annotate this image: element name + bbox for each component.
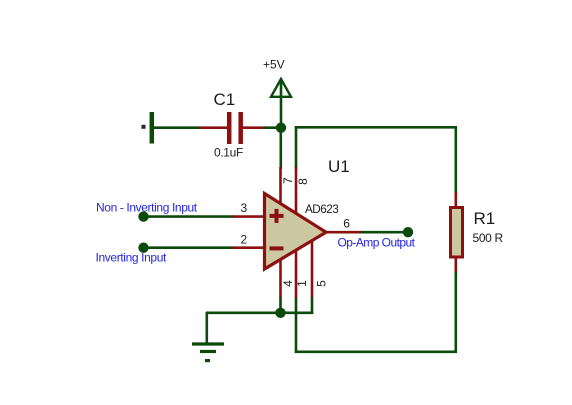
wire: R1 top red stub: [454, 192, 457, 209]
wire: C1 right pin stub (red): [242, 126, 266, 129]
svg-text:500 R: 500 R: [473, 231, 504, 245]
svg-text:AD623: AD623: [305, 203, 338, 216]
label 500 R: [473, 231, 504, 245]
svg-text:C1: C1: [214, 90, 236, 109]
wire: drop to ground symbol: [206, 312, 209, 344]
wire: pin1 red stub: [295, 247, 298, 298]
terminal: non-inverting input: [138, 211, 148, 221]
svg-text:3: 3: [241, 201, 248, 215]
pin number 6: [343, 216, 350, 230]
svg-text:0.1uF: 0.1uF: [214, 146, 243, 160]
op-amp plus mark: [270, 209, 284, 223]
pin number 4 (rotated): [281, 280, 295, 287]
label R1: [474, 209, 496, 228]
pin number 2: [241, 232, 248, 246]
ground: [192, 344, 224, 362]
pin number 7 (rotated): [281, 177, 295, 184]
resistor R1 body: [451, 208, 463, 258]
wire: pin8 green segment: [295, 127, 298, 170]
label 0.1uF: [214, 146, 243, 160]
wire: C1 left pin stub (red): [200, 126, 228, 129]
wire: pin2 red stub: [233, 246, 267, 249]
svg-text:+5V: +5V: [263, 58, 285, 72]
wire: top feedback rail: [295, 126, 457, 129]
pin number 5 (rotated): [315, 280, 329, 287]
op-amp U1 body: [265, 194, 327, 270]
wire: pin1 green segment: [295, 297, 298, 353]
wire: pin4 green segment: [279, 297, 282, 313]
wire: R1 bottom green lead: [454, 272, 457, 353]
svg-text:7: 7: [281, 177, 295, 184]
terminal: C1 left connector: [142, 112, 152, 144]
wire: pin7 green segment: [279, 128, 282, 169]
svg-text:2: 2: [241, 232, 248, 246]
pin number 3: [241, 201, 248, 215]
wire: pin3 green lead: [144, 215, 235, 218]
net label Non - Inverting Input: [96, 200, 198, 214]
wire: pin7 red stub: [279, 167, 282, 206]
label AD623: [305, 203, 338, 216]
svg-text:4: 4: [281, 280, 295, 287]
svg-text:5: 5: [315, 280, 329, 287]
svg-text:1: 1: [295, 280, 309, 287]
wire: R1 top green lead: [454, 127, 457, 194]
svg-text:Inverting Input: Inverting Input: [96, 251, 168, 265]
wire: R1 bottom red stub: [454, 256, 457, 274]
net label Inverting Input: [96, 251, 168, 265]
svg-text:6: 6: [343, 216, 350, 230]
wire: pin3 red stub: [233, 215, 267, 218]
power +5V symbol: [271, 79, 291, 128]
wire: pin5 red stub: [311, 237, 314, 298]
wire: C1 left lead (green): [154, 126, 201, 129]
net label Op-Amp Output: [338, 236, 416, 250]
svg-text:Non - Inverting Input: Non - Inverting Input: [96, 200, 198, 214]
wire: output green lead: [361, 231, 408, 234]
svg-text:R1: R1: [474, 209, 496, 228]
svg-text:Op-Amp Output: Op-Amp Output: [338, 236, 416, 250]
wire: pin4 red stub: [279, 257, 282, 298]
label U1: [328, 157, 350, 176]
wire: ground rail: [206, 311, 313, 314]
capacitor C1: [229, 112, 241, 144]
terminal: op-amp output: [403, 227, 413, 237]
op-amp minus mark: [270, 246, 284, 250]
pin number 1 (rotated): [295, 280, 309, 287]
node: ground junction: [275, 308, 285, 318]
pin number 8 (rotated): [296, 178, 310, 185]
wire: pin2 green lead: [144, 246, 235, 249]
wire: C1 right lead to +5V node (green): [264, 126, 282, 129]
terminal: inverting input: [138, 243, 148, 253]
svg-text:8: 8: [296, 178, 310, 185]
wire: pin5 green segment: [311, 297, 314, 314]
label C1: [214, 90, 236, 109]
wire: pin6 red stub: [326, 231, 362, 234]
node: junction +5V / C1 / pin7: [276, 123, 286, 133]
wire: bottom return rail: [295, 350, 457, 353]
wire: pin8 red stub: [295, 167, 298, 215]
label +5V: [263, 58, 285, 72]
svg-text:U1: U1: [328, 157, 350, 176]
